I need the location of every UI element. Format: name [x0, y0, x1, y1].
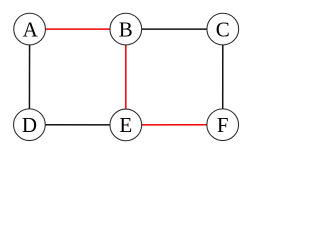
svg-text:E: E: [119, 113, 132, 137]
svg-text:D: D: [22, 113, 37, 137]
svg-text:B: B: [119, 17, 133, 41]
svg-text:F: F: [217, 113, 229, 137]
svg-text:C: C: [216, 17, 230, 41]
svg-text:A: A: [23, 17, 39, 41]
